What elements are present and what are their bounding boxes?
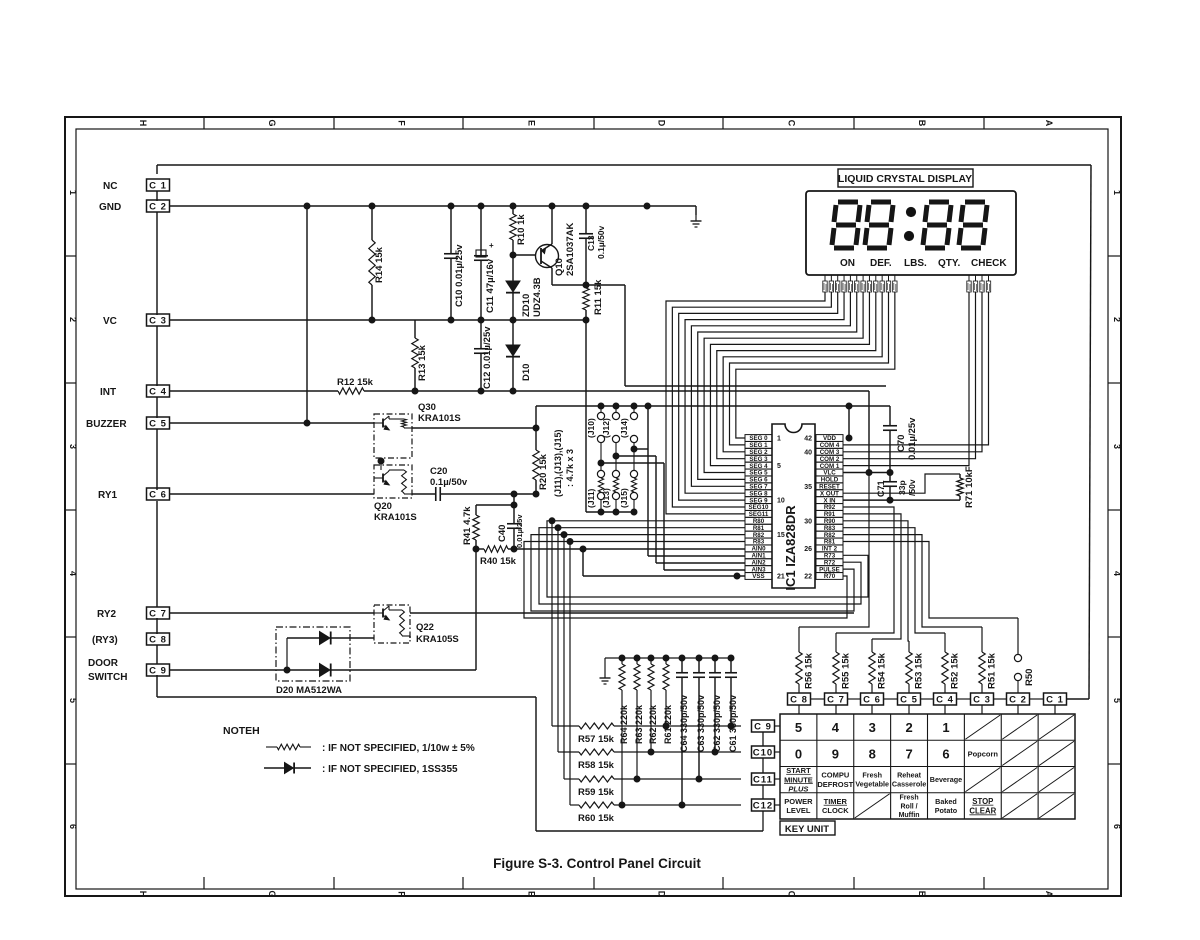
svg-text:C 6: C 6 [149,489,167,500]
svg-text:D10: D10 [521,364,532,381]
connector C8 (key col) [788,693,811,714]
label Q22 [416,622,459,645]
svg-text:C62 330p/50v: C62 330p/50v [712,695,722,752]
svg-text:SWITCH: SWITCH [88,672,127,683]
svg-text:STOP: STOP [972,797,993,806]
label NOTEH [223,725,260,737]
transistor Q22 [374,605,410,643]
svg-text:10: 10 [777,498,785,505]
svg-text:Reheat: Reheat [897,771,922,780]
wire VDD rail [536,403,890,409]
LCD segment pins [823,275,897,292]
label C71 value [897,479,917,496]
wire Q22 out [410,612,854,614]
svg-text:2SA1037AK: 2SA1037AK [565,223,576,276]
svg-text:Popcorn: Popcorn [968,749,999,758]
wire VLC node [843,470,893,476]
svg-text:C12 0.01µ/25v: C12 0.01µ/25v [482,326,493,389]
label J12 [601,418,611,438]
svg-text:0.1µ/50v: 0.1µ/50v [430,477,468,488]
label C62 [712,695,722,752]
svg-text:UDZ4.3B: UDZ4.3B [532,277,543,317]
svg-text:COMPU: COMPU [821,771,849,780]
svg-text:(J11),(J13),(J15): (J11),(J13),(J15) [553,429,563,497]
svg-text:A: A [1044,120,1054,127]
ground (GND rail end) [691,206,702,227]
svg-text:D: D [657,891,667,898]
label LIQUID CRYSTAL DISPLAY [838,169,973,187]
label C12 [482,326,493,389]
resistors R57-R60 [552,723,741,808]
label J11 [586,488,596,508]
label R63 [634,704,644,744]
label R41 [462,506,473,545]
svg-text:CLEAR: CLEAR [969,806,996,815]
label R20 [538,453,549,490]
svg-text:LEVEL: LEVEL [786,806,811,815]
svg-text:3: 3 [68,444,78,449]
svg-text:(J13): (J13) [601,488,611,508]
svg-text:C 2: C 2 [149,201,167,212]
svg-text:Fresh: Fresh [862,771,882,780]
svg-text:C11: C11 [753,774,773,785]
capacitors C61-C64 [676,658,737,808]
label R53 [914,652,925,689]
svg-text:POWER: POWER [784,797,813,806]
svg-text:4: 4 [832,720,840,735]
svg-text:0.1µ/50v: 0.1µ/50v [596,225,606,259]
svg-text:C: C [787,891,797,898]
connector C7 (key col) [825,693,848,714]
resistor R41 [473,505,479,549]
svg-text:R60 15k: R60 15k [578,813,615,824]
svg-text:LIQUID CRYSTAL DISPLAY: LIQUID CRYSTAL DISPLAY [838,173,972,185]
svg-text:Fresh: Fresh [900,795,919,802]
svg-text:2: 2 [905,720,912,735]
svg-text:C 9: C 9 [754,721,772,732]
wire GND rail [170,203,696,209]
svg-text:1: 1 [1112,190,1122,195]
legend diode [264,763,311,774]
wire Q10 collector [552,282,625,288]
resistor R10 [510,206,516,255]
wire key row chain [762,732,764,831]
svg-text:+: + [489,241,494,250]
label R62 [648,704,658,744]
svg-text:KRA101S: KRA101S [374,512,417,523]
transistor Q20 [374,458,412,498]
svg-text:ON: ON [840,258,855,269]
svg-text:G: G [267,890,277,897]
label R50 [1024,669,1035,686]
LCD digits 88:88 [832,202,987,248]
svg-text:R64 220k: R64 220k [619,704,629,744]
wire J to AIN2 [616,456,745,563]
svg-text:G: G [267,119,277,126]
caption [493,856,701,871]
connector C6 (RY1) [147,488,170,500]
svg-text:C 2: C 2 [1009,694,1027,705]
svg-text:F: F [397,891,407,897]
svg-text:R63 220k: R63 220k [634,704,644,744]
label R10 [516,214,527,245]
svg-text:GND: GND [99,202,121,213]
svg-text:C10 0.01µ/25v: C10 0.01µ/25v [454,244,465,307]
op-amp U1 IC1 IZA828DR [745,424,843,591]
wire top rail [157,165,1091,174]
svg-text:IC1 IZA828DR: IC1 IZA828DR [783,505,798,591]
svg-text:QTY.: QTY. [938,258,960,269]
svg-text:C 9: C 9 [149,665,167,676]
svg-text:MINUTE: MINUTE [784,775,813,784]
svg-text:C11 47µ/16v: C11 47µ/16v [485,258,496,313]
svg-text:(J11): (J11) [586,488,596,508]
LCD display body [806,191,1016,275]
svg-text:C 6: C 6 [863,694,881,705]
connector C3 (key col) [971,693,994,714]
svg-text:R20 15k: R20 15k [538,453,549,490]
svg-text:B: B [917,891,927,898]
resistor R71 [957,474,963,500]
svg-text:DEFROST: DEFROST [817,780,853,789]
label C13 [586,225,606,259]
legend resistor [266,744,311,750]
label R52 [950,652,961,689]
connector C1 (key col) [1044,693,1067,714]
wire R41 drop [475,549,477,670]
svg-text:RY2: RY2 [97,609,117,620]
svg-text:Roll /: Roll / [901,803,918,810]
connector C4 (key col) [934,693,957,714]
wire J bottoms [586,320,634,512]
wire bus LCD to SEG staircase [666,292,895,514]
label ZD10 [521,277,543,317]
svg-text:15: 15 [777,532,785,539]
svg-text:R61 220k: R61 220k [663,704,673,744]
jumpers J10 J12 J14 [597,406,637,466]
svg-text:DOOR: DOOR [88,658,119,669]
capacitor C13 [579,206,593,285]
transistor Q30 [374,414,412,458]
svg-text:: IF NOT SPECIFIED, 1SS355: : IF NOT SPECIFIED, 1SS355 [322,764,458,775]
svg-text:VSS: VSS [752,573,764,580]
label R57 [578,734,615,745]
border coordinate strip [65,117,1122,898]
connector C5 (BUZZER) [147,417,170,429]
resistor R56 [796,645,802,693]
wire collector feed [625,285,886,386]
svg-text:D20 MA512WA: D20 MA512WA [276,685,342,696]
label R11 [593,279,604,315]
resistor R53 [906,645,912,693]
svg-text:NOTEH: NOTEH [223,725,260,737]
svg-text:R10 1k: R10 1k [516,214,527,245]
svg-text:1: 1 [942,720,949,735]
resistor R11 [583,285,589,320]
svg-text:C64 330p/50v: C64 330p/50v [679,695,689,752]
wire X IN [843,497,960,503]
connector C3 (VC) [147,314,170,326]
ground (RC rail) [600,672,611,684]
connector C11 (key row) [752,773,781,785]
svg-text:R50: R50 [1024,669,1035,686]
wire Q30 out [412,425,539,431]
connector C10 (key row) [752,746,781,758]
svg-text:H: H [138,891,148,898]
svg-text:ZD10: ZD10 [521,294,532,317]
wire INT rail [170,388,869,394]
svg-text:PLUS: PLUS [788,785,808,794]
svg-text:26: 26 [804,546,812,553]
svg-text:R56 15k: R56 15k [804,652,815,689]
connector C4 (INT) [147,385,170,397]
KEY UNIT box [780,821,835,835]
label J10 [586,418,596,438]
label R61 [663,704,673,744]
label R51 [987,652,998,689]
resistor R14 [369,206,375,320]
svg-text:0.01µ/25v: 0.01µ/25v [907,417,918,460]
svg-text:R57 15k: R57 15k [578,734,615,745]
svg-text:1: 1 [777,436,781,443]
svg-text:C10: C10 [753,747,773,758]
svg-text:B: B [917,120,927,127]
svg-text:KEY UNIT: KEY UNIT [785,824,829,835]
transistor Q10 [513,206,559,285]
key matrix grid [780,714,1075,819]
wire key connector chain [811,698,1044,700]
resistor R50 [1014,653,1021,693]
connector name labels [86,181,127,683]
svg-text:E: E [527,891,537,897]
svg-text:D: D [657,120,667,127]
svg-text:CHECK: CHECK [971,258,1007,269]
svg-text:40: 40 [804,449,812,456]
resistor R40 [473,546,517,552]
svg-text:5: 5 [68,698,78,703]
svg-text:R59 15k: R59 15k [578,787,615,798]
svg-text:R14 15k: R14 15k [374,246,385,283]
label R59 [578,787,615,798]
svg-text:R51 15k: R51 15k [987,652,998,689]
svg-text:A: A [1044,891,1054,898]
label C20 [430,466,468,488]
wire Q22 bottom [409,636,411,638]
svg-text:4: 4 [68,571,78,576]
svg-text:(J12): (J12) [601,418,611,438]
wire INT to right [868,391,870,473]
svg-text:R12 15k: R12 15k [337,377,374,388]
svg-text:3: 3 [869,720,876,735]
label R71 [964,466,975,508]
connector C1 (NC) [147,179,170,191]
wire RC rail [605,655,734,672]
connector C8 ((RY3)) [147,633,170,645]
svg-text:VC: VC [103,316,117,327]
svg-text:1: 1 [68,190,78,195]
svg-text:KRA105S: KRA105S [416,634,459,645]
svg-text:C 5: C 5 [900,694,918,705]
svg-text:C70: C70 [896,435,907,452]
wire node 505 [476,491,517,508]
svg-text:0.01µ/25v: 0.01µ/25v [515,514,524,548]
capacitor C70 [883,406,897,473]
svg-text:5: 5 [777,463,781,470]
svg-text:R70: R70 [824,573,836,580]
svg-text:(J15): (J15) [619,488,629,508]
jumper resistors J11 J13 J15 [597,449,637,515]
svg-text:4: 4 [1112,571,1122,576]
svg-text:Figure S-3. Control Panel Circ: Figure S-3. Control Panel Circuit [493,856,701,871]
svg-text:6: 6 [1112,824,1122,829]
svg-text:Beverage: Beverage [930,775,962,784]
label R40 [480,556,517,567]
wire BUZZER [170,420,374,426]
legend resistor text [322,743,475,754]
svg-text:C40: C40 [497,525,508,542]
connector C9 (key row) [752,720,781,732]
svg-text:C20: C20 [430,466,447,477]
wire VDD stub [846,406,852,441]
connector C12 (key row) [752,799,781,811]
wire bus IC to key resistors [799,473,1018,654]
label C11 [485,258,496,313]
svg-text:C 3: C 3 [973,694,991,705]
svg-text:R52 15k: R52 15k [950,652,961,689]
resistor R13 [412,320,418,391]
connector C9 (DOOR) [147,664,170,676]
label Q30 [418,402,461,424]
svg-text:R71 10kF: R71 10kF [964,466,975,508]
connector C7 (RY2) [147,607,170,619]
label J group [553,429,575,497]
svg-text:KRA101S: KRA101S [418,413,461,424]
svg-text:Q22: Q22 [416,622,434,633]
svg-text:Q10: Q10 [554,258,565,276]
svg-text:C12: C12 [753,800,773,811]
label C70 [896,417,918,460]
svg-text:LBS.: LBS. [904,258,927,269]
resistor R20 [533,406,539,494]
wire left rail [156,191,158,697]
label R60 [578,813,615,824]
label C40 [497,514,524,548]
svg-text:C 8: C 8 [149,634,167,645]
wire right rail [1067,165,1091,699]
wire bus key scan lines [524,521,868,618]
capacitor C12 [474,320,488,391]
svg-text:START: START [786,766,811,775]
svg-text:Potato: Potato [935,806,958,815]
wire RY2 [170,612,374,614]
wire DOOR SWITCH [170,669,287,671]
svg-text:C 1: C 1 [149,180,167,191]
svg-text:R40 15k: R40 15k [480,556,517,567]
label R64 [619,704,629,744]
zener ZD10 [506,252,520,320]
svg-text:R62 220k: R62 220k [648,704,658,744]
capacitor C10 [444,206,458,320]
svg-text:Baked: Baked [935,797,957,806]
svg-text:E: E [527,120,537,126]
svg-text:R53 15k: R53 15k [914,652,925,689]
border frame [65,117,1121,896]
capacitor C11 [474,206,494,320]
wire VC rail [170,317,589,323]
svg-text:C 3: C 3 [149,315,167,326]
wire X OUT [843,474,960,493]
label R54 [877,652,888,689]
svg-text:42: 42 [804,436,812,443]
svg-text:0: 0 [795,746,802,761]
resistor R51 [979,645,985,693]
connector C2 (key col) [1007,693,1030,714]
resistor R54 [869,645,875,693]
label R12 [337,377,374,388]
svg-text:R54 15k: R54 15k [877,652,888,689]
svg-text:R55 15k: R55 15k [841,652,852,689]
svg-text:C 4: C 4 [149,386,167,397]
svg-text:(J14): (J14) [619,418,629,438]
svg-text:H: H [138,120,148,127]
svg-text:C: C [787,120,797,127]
svg-text:Q30: Q30 [418,402,436,413]
wire RY1 [170,493,374,495]
key matrix labels [784,720,998,819]
capacitor C40 [507,505,521,549]
svg-text:6: 6 [68,824,78,829]
svg-text:7: 7 [905,746,912,761]
capacitor C20 [412,487,539,501]
label C10 [454,244,465,307]
svg-text:C 5: C 5 [149,418,167,429]
label Q20 [374,501,417,523]
svg-text:C 4: C 4 [936,694,954,705]
wire J to AIN1 [634,406,745,556]
wire bus LCD COM to IC [843,292,989,466]
label J15 [619,488,629,508]
svg-text:TIMER: TIMER [824,797,848,806]
svg-text:2: 2 [68,317,78,322]
svg-text:Vegetable: Vegetable [855,780,889,789]
svg-text:3: 3 [1112,444,1122,449]
svg-text:5: 5 [795,720,802,735]
svg-text:5: 5 [1112,698,1122,703]
label J13 [601,488,611,508]
svg-text:C71: C71 [876,480,886,497]
LCD annunciators [840,258,1007,269]
svg-text:8: 8 [869,746,876,761]
svg-text:C 8: C 8 [790,694,808,705]
label R13 [417,344,428,381]
svg-text:Muffin: Muffin [899,812,920,819]
resistor R52 [942,645,948,693]
LCD COM pins [967,275,991,292]
svg-text:DEF.: DEF. [870,258,892,269]
label C63 [696,695,706,752]
svg-text:C63 330p/50v: C63 330p/50v [696,695,706,752]
diode D10 [506,320,520,391]
legend diode text [322,764,458,775]
label R56 [804,652,815,689]
svg-text:NC: NC [103,181,117,192]
svg-text:R13 15k: R13 15k [417,344,428,381]
label C71 [876,480,886,497]
svg-text:C 7: C 7 [827,694,845,705]
wire bus to key row resistors [549,518,573,805]
svg-text:RY1: RY1 [98,490,118,501]
svg-text:35: 35 [804,484,812,491]
